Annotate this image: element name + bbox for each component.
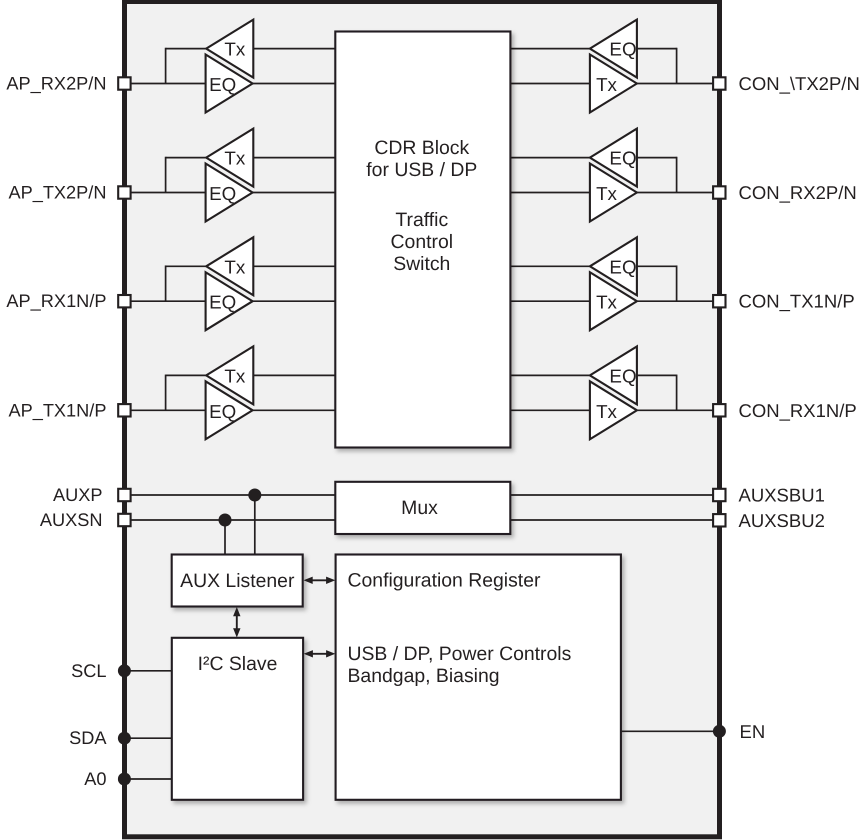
pin square AUXP [118, 489, 130, 501]
wire: AUXP pin to Mux [126, 494, 335, 496]
CDR block for USB / DP, traffic control switch [335, 32, 510, 448]
wire: right EQ output loop horizontal, channel 1 [637, 48, 677, 50]
equalizer EQ right, channel 3 [590, 237, 637, 295]
wire: left pin to EQ input, channel 2 [126, 192, 206, 194]
svg-text:EQ: EQ [609, 365, 636, 386]
svg-text:Tx: Tx [224, 39, 245, 60]
equalizer EQ right, channel 1 [590, 20, 637, 78]
amplifier Tx left, channel 4 [206, 346, 253, 404]
amplifier Tx right, channel 4 [590, 381, 637, 439]
wire: left Tx output loop horizontal, channel 4 [166, 374, 207, 376]
svg-text:AUXSBU1: AUXSBU1 [739, 485, 825, 506]
svg-text:EQ: EQ [609, 39, 636, 60]
wire: SDA to I2C Slave [124, 737, 172, 739]
wire: right EQ output loop vertical, channel 3 [676, 265, 678, 301]
svg-text:CON_RX1N/P: CON_RX1N/P [739, 400, 857, 421]
wire: CDR block to right EQ input, channel 4 [510, 374, 590, 376]
wire: left pin to EQ input, channel 1 [126, 83, 206, 85]
svg-text:USB / DP, Power Controls: USB / DP, Power Controls [348, 643, 572, 665]
wire: left pin to EQ input, channel 4 [126, 409, 206, 411]
wire: left Tx output loop vertical, channel 1 [165, 48, 167, 84]
svg-text:AUX Listener: AUX Listener [180, 570, 295, 592]
wire: CDR block to right EQ input, channel 2 [510, 157, 590, 159]
wire: left EQ output to CDR block, channel 1 [253, 83, 336, 85]
pin dot EN [713, 725, 726, 738]
wire: A0 to I2C Slave [124, 778, 172, 780]
wire: left Tx output loop vertical, channel 4 [165, 375, 167, 411]
svg-text:Tx: Tx [596, 292, 617, 313]
Mux block [335, 482, 510, 534]
wire: left Tx input from CDR block, channel 3 [253, 265, 335, 267]
equalizer EQ right, channel 2 [590, 129, 637, 187]
svg-text:Switch: Switch [393, 253, 450, 275]
I2C Slave block [172, 638, 303, 800]
wire: left EQ output to CDR block, channel 4 [253, 409, 336, 411]
wire: left Tx output loop horizontal, channel 2 [166, 157, 207, 159]
pin square AUXSBU2 [713, 514, 725, 526]
pin dot SDA [118, 732, 131, 745]
svg-text:Tx: Tx [224, 148, 245, 169]
amplifier Tx left, channel 1 [206, 20, 253, 78]
wire: left Tx input from CDR block, channel 2 [253, 157, 335, 159]
wire: AUXSN tap down to AUX Listener [224, 520, 226, 556]
wire: CDR block to right Tx input, channel 2 [510, 192, 590, 194]
wire: right EQ output loop vertical, channel 2 [676, 157, 678, 193]
wire: CDR block to right EQ input, channel 1 [510, 48, 590, 50]
svg-text:CON_TX1N/P: CON_TX1N/P [739, 291, 855, 312]
svg-text:Tx: Tx [224, 256, 245, 277]
equalizer EQ left, channel 2 [206, 164, 253, 222]
wire: left Tx input from CDR block, channel 1 [253, 48, 335, 50]
svg-text:AUXSN: AUXSN [40, 510, 103, 530]
wire: left Tx output loop horizontal, channel 1 [166, 48, 207, 50]
equalizer EQ right, channel 4 [590, 346, 637, 404]
svg-text:Configuration Register: Configuration Register [348, 569, 541, 591]
svg-text:EQ: EQ [209, 183, 236, 204]
svg-text:AP_RX1N/P: AP_RX1N/P [6, 291, 106, 311]
chip body outline [125, 2, 720, 837]
svg-text:SCL: SCL [71, 661, 106, 681]
pin square CON_\TX2P/N [713, 77, 725, 89]
svg-text:EQ: EQ [609, 256, 636, 277]
svg-text:Tx: Tx [596, 183, 617, 204]
svg-text:for USB / DP: for USB / DP [366, 159, 477, 181]
wire: left pin to EQ input, channel 3 [126, 300, 206, 302]
arrow: AUX Listener to Configuration Register [304, 577, 336, 584]
pin square CON_TX1N/P [713, 295, 725, 307]
svg-text:CON_RX2P/N: CON_RX2P/N [739, 182, 857, 203]
wire: left EQ output to CDR block, channel 3 [253, 300, 336, 302]
amplifier Tx right, channel 2 [590, 164, 637, 222]
svg-text:SDA: SDA [69, 728, 107, 748]
pin square CON_RX2P/N [713, 186, 725, 198]
svg-text:Control: Control [391, 231, 454, 253]
pin square AP_TX1N/P [118, 404, 130, 416]
wire: right EQ output loop vertical, channel 1 [676, 48, 678, 84]
equalizer EQ left, channel 4 [206, 381, 253, 439]
wire: right EQ output loop horizontal, channel 2 [637, 157, 677, 159]
svg-text:EN: EN [740, 721, 766, 742]
pin square AP_TX2P/N [118, 186, 130, 198]
wire: right Tx output to pin, channel 3 [637, 300, 718, 302]
wire: left Tx output loop vertical, channel 2 [165, 157, 167, 193]
junction dot on AUXP line [248, 489, 261, 502]
equalizer EQ left, channel 1 [206, 55, 253, 113]
wire: right EQ output loop vertical, channel 4 [676, 375, 678, 411]
svg-text:AUXSBU2: AUXSBU2 [739, 510, 825, 531]
wire: left EQ output to CDR block, channel 2 [253, 192, 336, 194]
pin square AP_RX2P/N [118, 77, 130, 89]
wire: Mux to AUXSBU1 pin [510, 494, 717, 496]
arrow: AUX Listener to I2C Slave [233, 607, 240, 638]
pin square AUXSBU1 [713, 489, 725, 501]
svg-text:EQ: EQ [209, 292, 236, 313]
svg-text:Traffic: Traffic [395, 209, 448, 231]
wire: left Tx input from CDR block, channel 4 [253, 374, 335, 376]
svg-text:A0: A0 [84, 769, 106, 789]
svg-text:AP_TX1N/P: AP_TX1N/P [8, 400, 106, 420]
wire: right Tx output to pin, channel 1 [637, 83, 718, 85]
pin square CON_RX1N/P [713, 404, 725, 416]
pin dot SCL [118, 664, 131, 677]
pin square AP_RX1N/P [118, 295, 130, 307]
wire: CDR block to right Tx input, channel 1 [510, 83, 590, 85]
wire: AUXSN pin to Mux [126, 519, 335, 521]
svg-text:AUXP: AUXP [53, 485, 103, 505]
junction dot on AUXSN line [219, 514, 232, 527]
svg-text:Bandgap, Biasing: Bandgap, Biasing [348, 665, 500, 687]
svg-text:AP_RX2P/N: AP_RX2P/N [6, 74, 106, 94]
svg-text:Tx: Tx [596, 74, 617, 95]
wire: Configuration Register to EN pin [621, 730, 720, 732]
pin dot A0 [118, 773, 131, 786]
svg-text:Tx: Tx [224, 365, 245, 386]
svg-text:EQ: EQ [209, 74, 236, 95]
wire: CDR block to right Tx input, channel 3 [510, 300, 590, 302]
svg-text:EQ: EQ [609, 148, 636, 169]
amplifier Tx right, channel 3 [590, 272, 637, 330]
wire: AUXP tap down to AUX Listener [254, 495, 256, 556]
wire: right EQ output loop horizontal, channel 4 [637, 374, 677, 376]
AUX Listener block [172, 555, 303, 607]
equalizer EQ left, channel 3 [206, 272, 253, 330]
wire: CDR block to right Tx input, channel 4 [510, 409, 590, 411]
Configuration Register block [336, 555, 621, 800]
svg-text:CON_\TX2P/N: CON_\TX2P/N [739, 73, 860, 94]
amplifier Tx right, channel 1 [590, 55, 637, 113]
wire: left Tx output loop vertical, channel 3 [165, 265, 167, 301]
svg-text:I²C Slave: I²C Slave [198, 653, 278, 675]
wire: right Tx output to pin, channel 4 [637, 409, 718, 411]
wire: CDR block to right EQ input, channel 3 [510, 265, 590, 267]
amplifier Tx left, channel 3 [206, 237, 253, 295]
wire: right Tx output to pin, channel 2 [637, 192, 718, 194]
svg-text:CDR Block: CDR Block [374, 137, 469, 159]
wire: SCL to I2C Slave [124, 670, 172, 672]
svg-text:EQ: EQ [209, 401, 236, 422]
svg-text:Tx: Tx [596, 401, 617, 422]
amplifier Tx left, channel 2 [206, 129, 253, 187]
wire: right EQ output loop horizontal, channel 3 [637, 265, 677, 267]
pin square AUXSN [118, 514, 130, 526]
arrow: I2C Slave to Configuration Register [304, 650, 336, 657]
wire: Mux to AUXSBU2 pin [510, 519, 717, 521]
svg-text:AP_TX2P/N: AP_TX2P/N [8, 183, 106, 203]
wire: left Tx output loop horizontal, channel 3 [166, 265, 207, 267]
svg-text:Mux: Mux [401, 497, 438, 519]
